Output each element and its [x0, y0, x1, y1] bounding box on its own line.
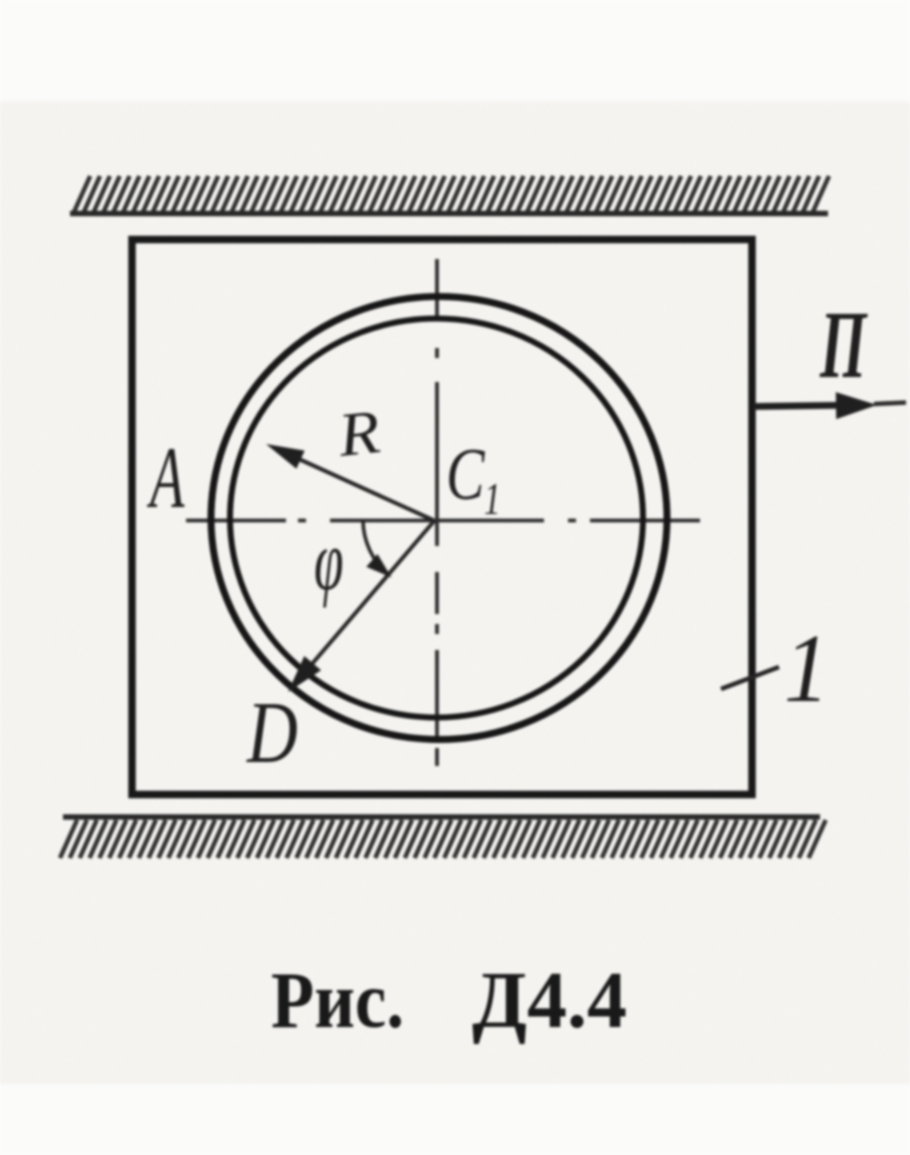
- velocity arrow of body 1: [753, 405, 860, 407]
- leader line to label 1: [721, 667, 779, 689]
- vertical dash-dot centre line: [435, 259, 439, 766]
- upper wall hatching: [74, 176, 829, 212]
- angle phi arc arrowhead: [366, 554, 391, 578]
- svg-text:Рис.: Рис.: [271, 957, 404, 1045]
- svg-text:Д4.4: Д4.4: [472, 957, 627, 1045]
- radius R arrow shaft: [278, 450, 433, 521]
- lower wall surface line: [63, 814, 820, 820]
- radius R arrowhead: [266, 444, 305, 469]
- point D arrowhead: [288, 656, 321, 692]
- horizontal dash-dot centre line: [186, 519, 700, 523]
- plate (body 1) outline: [132, 240, 752, 795]
- lower wall hatching: [60, 820, 826, 858]
- circular channel outer ring: [211, 297, 667, 740]
- circular channel inner ring: [230, 319, 643, 718]
- angle phi arc: [363, 520, 388, 574]
- crank C1D shaft: [300, 520, 435, 678]
- velocity arrowhead: [836, 392, 877, 419]
- upper wall surface line: [70, 211, 828, 217]
- velocity arrow thin tail: [874, 403, 906, 405]
